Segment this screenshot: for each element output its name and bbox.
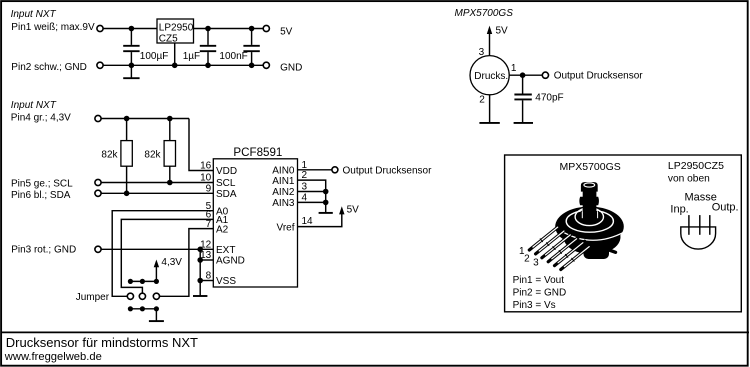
- wire AGND stub: [200, 259, 213, 261]
- jumper ground pin c: [154, 306, 159, 311]
- power arrow 5V Vref: [339, 206, 344, 214]
- sensor body chin: [584, 245, 610, 259]
- terminal output drucksensor: [542, 72, 548, 78]
- ground below sensor: [479, 122, 499, 124]
- junction AGND: [197, 257, 203, 263]
- power arrow 5V sensor supply: [487, 26, 492, 56]
- sensor pin leg 6: [561, 245, 591, 269]
- terminal output drucksensor mid: [332, 167, 338, 173]
- wire AIN1 to ground bus: [298, 180, 326, 212]
- junction EXT ground bus: [197, 247, 203, 253]
- junction R2 top: [167, 116, 173, 122]
- svg-text:5V: 5V: [496, 25, 509, 36]
- svg-text:Vref: Vref: [277, 222, 295, 233]
- wire Pin3 to EXT: [101, 248, 213, 250]
- ground below VSS bus: [193, 295, 207, 297]
- sensor body disc: [555, 207, 624, 247]
- wire A2 to jumper: [160, 229, 214, 297]
- MPX5700GS sensor drawing: [529, 182, 624, 269]
- svg-text:Output Drucksensor: Output Drucksensor: [343, 165, 433, 176]
- TO92 pin masse: [699, 215, 701, 235]
- wire Pin4 supply rail: [101, 118, 189, 120]
- svg-text:Pin2 schw.; GND: Pin2 schw.; GND: [11, 62, 87, 73]
- capacitor C2 1uF: [200, 29, 216, 66]
- svg-text:SDA: SDA: [216, 189, 237, 200]
- pressure sensor symbol Drucks: [470, 56, 509, 95]
- sensor pin6 base stub: [605, 249, 616, 253]
- TO92 pin input: [688, 215, 690, 235]
- svg-text:Pin3 = Vs: Pin3 = Vs: [513, 300, 556, 311]
- info box outline: [505, 155, 742, 312]
- wire sensor output: [509, 74, 542, 76]
- svg-text:AIN2: AIN2: [272, 187, 295, 198]
- junction GND rail at C1: [129, 63, 135, 69]
- svg-text:Jumper: Jumper: [76, 292, 110, 303]
- svg-text:Pin5 ge.; SCL: Pin5 ge.; SCL: [11, 178, 73, 189]
- svg-text:100nF: 100nF: [219, 51, 247, 62]
- svg-text:82k: 82k: [101, 149, 118, 160]
- terminal Pin4: [95, 115, 101, 121]
- svg-text:VDD: VDD: [216, 166, 237, 177]
- wire VSS stub: [200, 280, 213, 282]
- wire regulator ground pin: [174, 43, 176, 65]
- sensor body lower bulge: [564, 220, 621, 255]
- svg-text:EXT: EXT: [216, 245, 235, 256]
- svg-text:PCF8591: PCF8591: [233, 146, 282, 159]
- junction C1 top: [129, 26, 135, 32]
- capacitor C4 470pF: [514, 75, 531, 122]
- resistor R1 82k: [121, 119, 132, 194]
- wire Vref to 5V: [298, 214, 342, 227]
- svg-text:MPX5700GS: MPX5700GS: [560, 161, 621, 173]
- jumper open pin A2: [153, 293, 159, 299]
- svg-text:470pF: 470pF: [535, 92, 563, 103]
- sensor pin leg 2: [536, 230, 566, 254]
- svg-text:Pin4 gr.; 4,3V: Pin4 gr.; 4,3V: [11, 113, 71, 124]
- svg-text:AGND: AGND: [216, 256, 245, 267]
- jumper ground pin b: [140, 306, 145, 311]
- wire A1 to jumper: [121, 219, 213, 293]
- junction GND rail at regulator: [172, 63, 178, 69]
- svg-text:Pin1 weiß; max.9V: Pin1 weiß; max.9V: [11, 22, 95, 33]
- svg-text:Input NXT: Input NXT: [11, 9, 57, 20]
- terminal 5V output: [263, 25, 269, 31]
- wire SCL: [101, 182, 213, 184]
- junction C3 top: [249, 26, 255, 32]
- ground below jumper: [149, 320, 164, 322]
- junction R1 bottom on SDA: [124, 191, 130, 197]
- sensor pin leg 3: [542, 233, 572, 257]
- capacitor C3 100nF: [243, 29, 259, 66]
- svg-text:Outp.: Outp.: [712, 202, 739, 214]
- wire Pin1 to regulator input: [103, 28, 157, 30]
- wire A0 to jumper: [112, 211, 213, 297]
- junction AIN3: [323, 200, 329, 206]
- terminal Pin3: [95, 246, 101, 252]
- svg-text:5V: 5V: [347, 204, 360, 215]
- wire SDA: [101, 192, 213, 194]
- svg-text:Pin1 = Vout: Pin1 = Vout: [513, 275, 565, 286]
- TO92 pin output: [709, 215, 711, 235]
- power arrow 4,3V jumper: [154, 260, 159, 282]
- wire sensor pin2 to ground: [489, 95, 491, 123]
- jumper open pin A0: [127, 293, 133, 299]
- svg-text:GND: GND: [280, 62, 302, 73]
- junction C2 top: [205, 26, 211, 32]
- sensor pin leg 5: [555, 241, 585, 265]
- op-amp U2 PCF8591 body: [213, 159, 297, 287]
- svg-text:www.freggelweb.de: www.freggelweb.de: [4, 351, 102, 363]
- jumper open pin A1: [139, 293, 145, 299]
- svg-text:3: 3: [533, 257, 539, 268]
- svg-text:Pin6 bl.; SDA: Pin6 bl.; SDA: [11, 190, 71, 201]
- svg-text:Drucks.: Drucks.: [474, 71, 508, 82]
- wire regulator output to 5V terminal: [194, 28, 264, 30]
- svg-text:Pin3 rot.; GND: Pin3 rot.; GND: [11, 244, 76, 255]
- svg-text:AIN1: AIN1: [272, 176, 295, 187]
- ground below C1: [123, 65, 139, 78]
- sensor pin leg 4: [548, 237, 578, 261]
- sensor ring outer: [566, 210, 613, 232]
- jumper supply pin a: [128, 279, 133, 284]
- sensor body bottom rim highlight: [562, 231, 625, 240]
- terminal Pin6: [95, 190, 101, 196]
- sensor ring inner: [575, 208, 603, 226]
- junction GND rail at C2: [205, 63, 211, 69]
- svg-text:4,3V: 4,3V: [161, 257, 182, 268]
- junction GND rail at C3: [249, 63, 255, 69]
- junction sensor output: [520, 72, 526, 78]
- terminal Pin1 input: [97, 25, 103, 31]
- resistor R2 82k: [164, 119, 175, 183]
- svg-text:Input NXT: Input NXT: [11, 100, 57, 111]
- terminal Pin5: [95, 179, 101, 185]
- svg-text:AIN3: AIN3: [272, 198, 295, 209]
- svg-text:MPX5700GS: MPX5700GS: [455, 8, 514, 19]
- wire AIN2 stub: [298, 191, 326, 193]
- svg-text:5V: 5V: [280, 26, 293, 37]
- jumper supply pin b: [140, 279, 145, 284]
- svg-text:Drucksensor für mindstorms NXT: Drucksensor für mindstorms NXT: [6, 335, 198, 350]
- svg-text:A2: A2: [216, 224, 229, 235]
- TO92 package outline LP2950 top view: [681, 227, 716, 249]
- sensor pin leg 1: [529, 226, 559, 250]
- svg-text:14: 14: [302, 216, 314, 227]
- svg-text:10: 10: [200, 173, 212, 184]
- svg-text:Output Drucksensor: Output Drucksensor: [554, 71, 644, 82]
- regulator U1 LP2950CZ5 body: [157, 19, 194, 43]
- wire ground bus vertical: [199, 249, 201, 295]
- capacitor C1 100uF: [123, 29, 139, 66]
- svg-text:2: 2: [524, 253, 530, 264]
- svg-text:1µF: 1µF: [183, 51, 200, 62]
- svg-text:9: 9: [206, 184, 212, 195]
- svg-text:16: 16: [200, 161, 212, 172]
- svg-text:von oben: von oben: [668, 174, 710, 185]
- jumper ground row wire: [130, 308, 156, 310]
- svg-text:SCL: SCL: [216, 178, 236, 189]
- wire supply to VDD pin: [189, 119, 213, 171]
- svg-text:LP2950CZ5: LP2950CZ5: [668, 160, 724, 172]
- jumper supply pin c: [154, 279, 159, 284]
- svg-text:2: 2: [479, 95, 485, 106]
- junction VSS: [197, 278, 203, 284]
- ground below C4: [514, 122, 533, 124]
- svg-text:100µF: 100µF: [140, 51, 169, 62]
- svg-text:82k: 82k: [144, 149, 161, 160]
- ground below AIN bus: [319, 212, 333, 214]
- wire AIN0 output: [298, 169, 332, 171]
- wire jumper row to ground: [155, 309, 157, 321]
- jumper ground pin a: [128, 306, 133, 311]
- wire GND rail: [103, 64, 263, 66]
- junction R2 bottom on SCL: [167, 180, 173, 186]
- terminal Pin2 GND input: [97, 62, 103, 68]
- svg-text:Inp.: Inp.: [670, 203, 688, 215]
- jumper supply row wire: [130, 280, 156, 282]
- junction R1 top: [124, 116, 130, 122]
- junction AIN2: [323, 189, 329, 195]
- sensor port barb: [579, 182, 599, 219]
- terminal GND output: [263, 62, 269, 68]
- svg-text:LP2950: LP2950: [159, 22, 194, 33]
- svg-text:1: 1: [511, 63, 517, 74]
- svg-text:Pin2 = GND: Pin2 = GND: [513, 288, 567, 299]
- wire AIN3 stub: [298, 201, 326, 203]
- svg-text:VSS: VSS: [216, 276, 236, 287]
